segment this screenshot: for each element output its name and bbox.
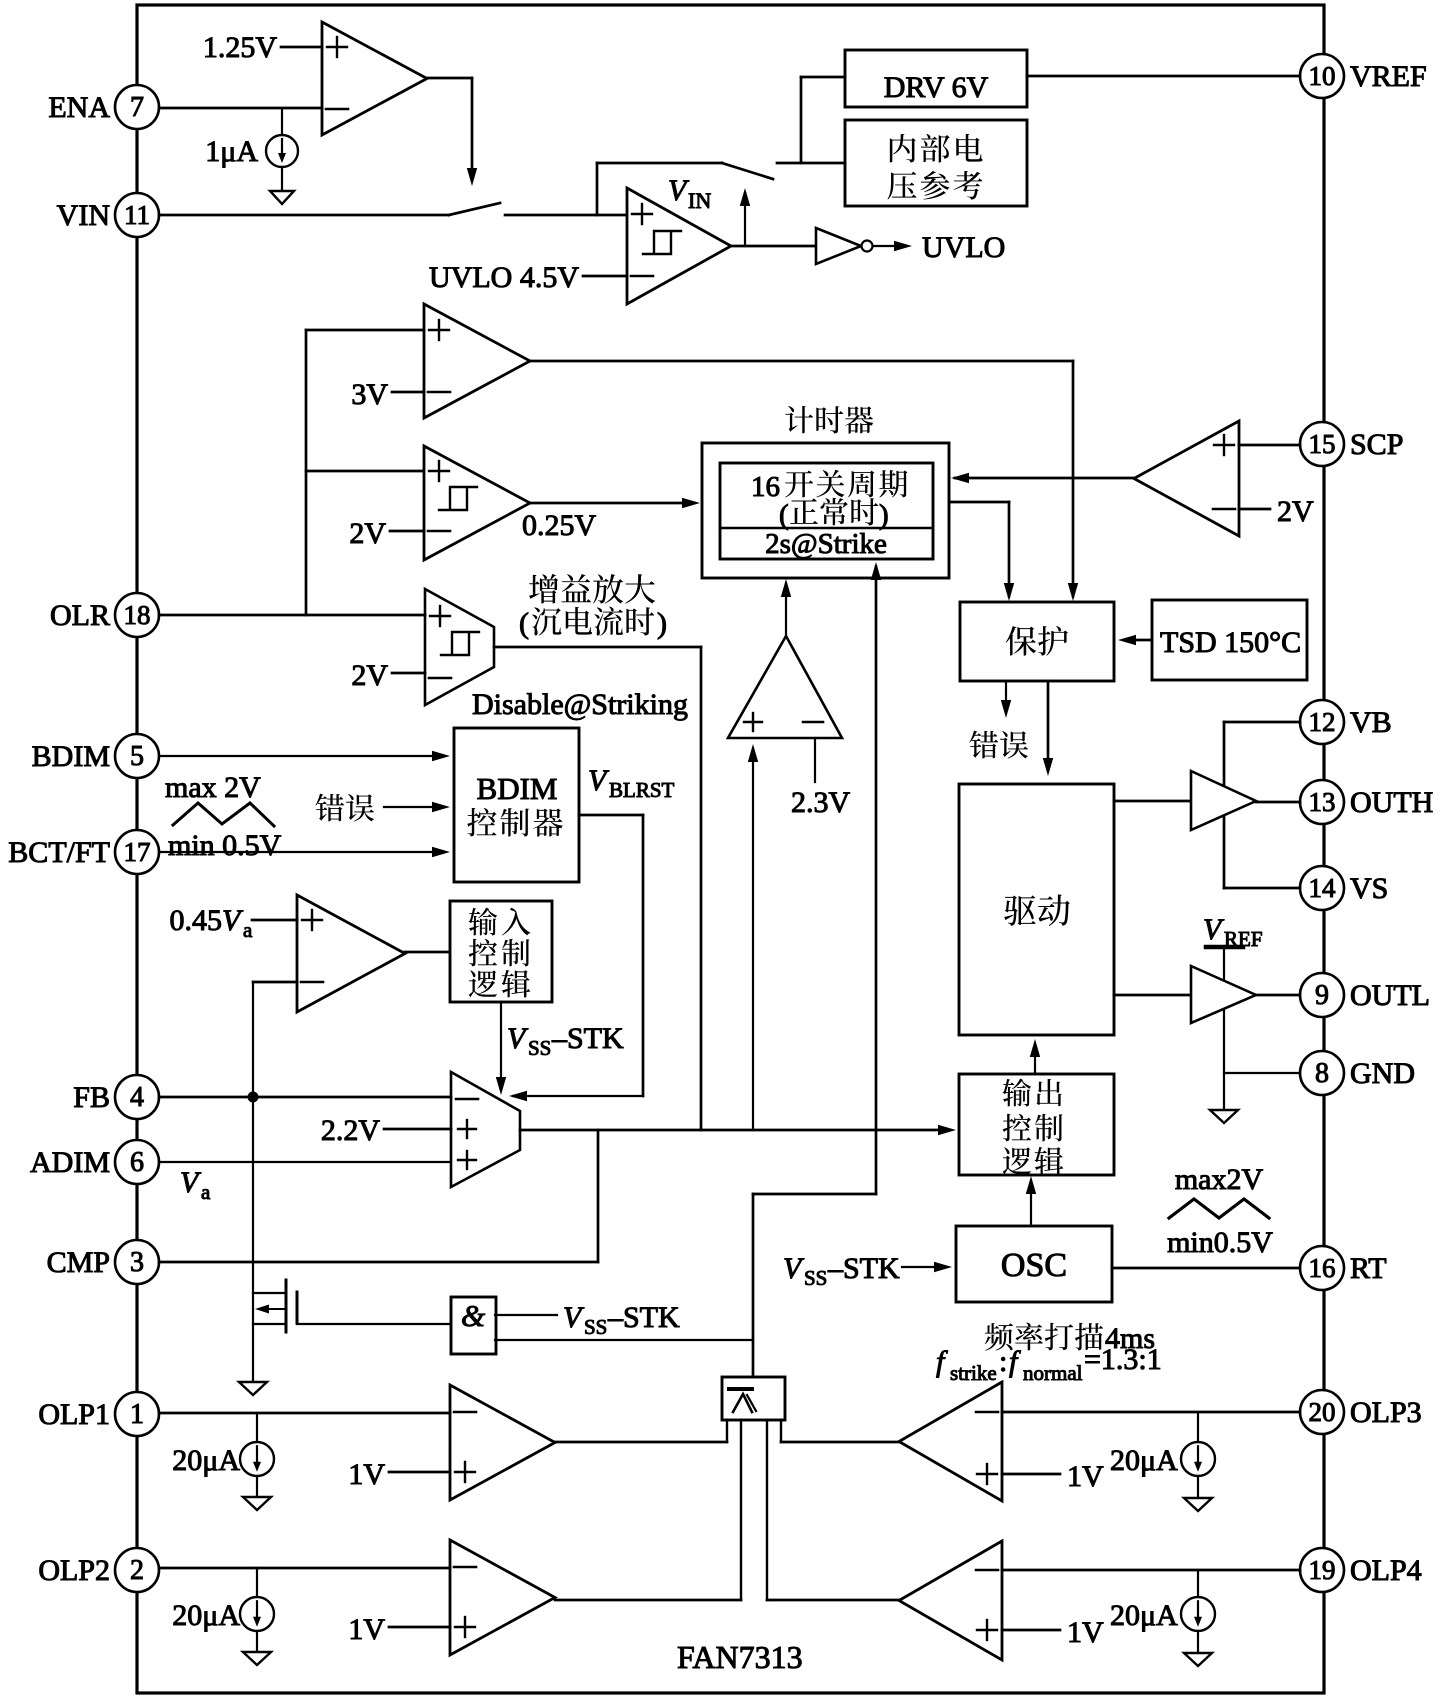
wire OLP3 pin to U14- xyxy=(1002,1411,1300,1414)
svg-text:VS: VS xyxy=(1350,872,1388,905)
svg-text:UVLO 4.5V: UVLO 4.5V xyxy=(429,261,579,294)
label 2V (U7) xyxy=(1277,495,1314,528)
wire Q1 source to ground xyxy=(252,1324,254,1382)
wire U12 input leg from OLP2 xyxy=(740,1420,742,1600)
node FB junction xyxy=(248,1092,259,1103)
switch S2 blade xyxy=(722,163,773,179)
svg-text:SS: SS xyxy=(804,1266,827,1290)
svg-text:VREF: VREF xyxy=(1350,60,1427,93)
svg-text:3: 3 xyxy=(130,1247,144,1278)
wire timer right tap to protection xyxy=(949,502,1014,601)
svg-text:2.2V: 2.2V xyxy=(321,1114,381,1147)
svg-text:strike: strike xyxy=(950,1361,997,1385)
label UVLO 4.5V xyxy=(429,261,579,294)
wire S1 to node/riser xyxy=(505,214,627,217)
wire & to VSS-STK label xyxy=(495,1314,557,1316)
svg-text:OUTH: OUTH xyxy=(1350,786,1433,819)
label VSS-STK (& gate) xyxy=(563,1301,680,1339)
label 1V (OLP3) xyxy=(1067,1460,1104,1493)
transistor Q1 (FB pulldown MOSFET) xyxy=(253,1097,297,1332)
svg-text:7: 7 xyxy=(130,92,144,123)
svg-text:): ) xyxy=(879,499,889,531)
buffer OUTL xyxy=(1114,966,1300,1023)
pin 4 FB xyxy=(73,1075,159,1119)
label VREF (outl) xyxy=(1203,913,1263,951)
comparator U8 2.3V xyxy=(728,636,842,738)
block TSD 150C xyxy=(1152,600,1307,680)
svg-text:): ) xyxy=(657,607,667,640)
svg-text:ADIM: ADIM xyxy=(30,1146,110,1179)
label VSS-STK (OSC) xyxy=(783,1252,900,1290)
svg-text:OSC: OSC xyxy=(1001,1247,1067,1284)
svg-text:CMP: CMP xyxy=(47,1246,110,1279)
svg-text:max 2V: max 2V xyxy=(165,771,261,804)
svg-text:2V: 2V xyxy=(349,517,386,550)
wire FB pin to U10- xyxy=(159,1096,451,1099)
wire 1V to U14+ xyxy=(1002,1473,1060,1476)
label 1uA xyxy=(205,135,258,168)
wire VREF bar down through OUTL buffer to ground xyxy=(1223,947,1225,1110)
svg-text:13: 13 xyxy=(1309,787,1336,817)
label 16 switching periods xyxy=(751,470,907,503)
wire strike-done riser to timer xyxy=(753,562,881,1377)
wire Q1 gate to AND gate xyxy=(297,1323,450,1325)
svg-text:20μA: 20μA xyxy=(172,1599,240,1632)
pin 3 CMP xyxy=(47,1240,159,1284)
svg-text:8: 8 xyxy=(1315,1058,1329,1089)
pin 13 OUTH xyxy=(1300,780,1433,824)
label 20uA (OLP4) xyxy=(1110,1599,1178,1632)
wire 2V to U7- xyxy=(1239,508,1270,511)
label 2V (U5) xyxy=(349,517,386,550)
pin 5 BDIM xyxy=(32,734,159,778)
svg-text:DRV 6V: DRV 6V xyxy=(884,71,989,104)
wire BCT/FT pin to controller xyxy=(159,847,450,857)
wire U6 output Disable@Striking down to CMP node xyxy=(494,647,701,1130)
svg-text:GND: GND xyxy=(1350,1057,1415,1090)
wire GND tap xyxy=(1224,1072,1300,1074)
pin 7 ENA xyxy=(48,85,159,129)
svg-text:&: & xyxy=(461,1298,485,1333)
wire BDIM pin to controller xyxy=(159,751,450,761)
svg-text:normal: normal xyxy=(1023,1361,1083,1385)
svg-text:OLP3: OLP3 xyxy=(1350,1396,1422,1429)
label 1V (OLP2) xyxy=(348,1613,385,1646)
label min 0.5V xyxy=(168,829,282,862)
pin 10 VREF xyxy=(1300,54,1427,98)
svg-text:BDIM: BDIM xyxy=(32,740,110,773)
pin 14 VS xyxy=(1300,866,1388,910)
wire DRV6V to VREF pin xyxy=(1027,75,1300,78)
label 2.3V xyxy=(791,786,851,819)
wire CMP pin riser xyxy=(159,1130,598,1262)
block output control logic xyxy=(959,1074,1114,1175)
svg-text:–STK: –STK xyxy=(607,1301,680,1334)
wire protection to error label xyxy=(1001,681,1011,718)
svg-text:1μA: 1μA xyxy=(205,135,258,168)
block DRV 6V xyxy=(845,50,1027,107)
current source I4 20uA (OLP2) xyxy=(240,1568,274,1651)
wire OLP1 pin to U13- xyxy=(159,1412,450,1415)
wire OSC to output logic xyxy=(1026,1176,1036,1226)
pin 11 VIN xyxy=(57,193,159,237)
inverter U3 xyxy=(816,228,873,264)
comparator U15 OLP2 xyxy=(450,1540,555,1655)
label 2s@Strike xyxy=(765,528,887,560)
svg-text:19: 19 xyxy=(1309,1555,1336,1585)
ground below I1 xyxy=(270,191,294,204)
wire U2 output xyxy=(731,245,816,248)
wire OLP4 pin to U16- xyxy=(1002,1569,1300,1572)
ground below Q1 xyxy=(239,1382,267,1395)
label 1V (OLP4) xyxy=(1067,1616,1104,1649)
svg-text:17: 17 xyxy=(124,837,151,867)
pin 17 BCT/FT xyxy=(8,830,159,874)
svg-text:SS: SS xyxy=(584,1315,607,1339)
svg-text:20: 20 xyxy=(1309,1397,1336,1427)
wire U9 out to input logic xyxy=(405,951,450,954)
svg-text:min0.5V: min0.5V xyxy=(1167,1226,1273,1259)
gate U12 NAND of OLP comparators xyxy=(722,1377,785,1420)
pin 6 ADIM xyxy=(30,1140,159,1184)
svg-text:min 0.5V: min 0.5V xyxy=(168,829,282,862)
block internal voltage reference xyxy=(845,120,1027,206)
svg-text:–STK: –STK xyxy=(551,1022,624,1055)
svg-text:1V: 1V xyxy=(1067,1616,1104,1649)
ground below I3 xyxy=(1184,1498,1212,1511)
block timer inner xyxy=(720,463,933,559)
wire 0.45Va to U9+ xyxy=(252,919,297,922)
switch S1 blade xyxy=(449,203,500,215)
comparator U14 OLP3 xyxy=(899,1382,1002,1501)
svg-text:2.3V: 2.3V xyxy=(791,786,851,819)
block BDIM controller xyxy=(454,728,579,882)
ground below I2 xyxy=(243,1497,271,1510)
label 20uA (OLP2) xyxy=(172,1599,240,1632)
svg-text:16: 16 xyxy=(751,471,780,503)
error amplifier U10 xyxy=(451,1072,520,1187)
wire 2V to U6- xyxy=(392,672,425,675)
svg-text:OLP1: OLP1 xyxy=(38,1398,110,1431)
svg-text:20μA: 20μA xyxy=(1110,1444,1178,1477)
label max 2V xyxy=(165,771,261,804)
wire VBLRST from controller to error amp reset xyxy=(509,815,643,1101)
wire 2.2V to U10+ xyxy=(384,1128,451,1131)
label 20uA (OLP3) xyxy=(1110,1444,1178,1477)
comparator U7 SCP 2V xyxy=(1134,421,1239,536)
label frequency sweep 4ms xyxy=(985,1322,1155,1355)
wire riser to upper rail xyxy=(597,163,722,215)
svg-text:1V: 1V xyxy=(348,1613,385,1646)
wire output logic to driver xyxy=(1030,1039,1040,1074)
triangle wave (RT) xyxy=(1169,1199,1269,1218)
wire 1V to U15+ xyxy=(389,1626,450,1629)
wire U9- to FB node xyxy=(253,982,297,1097)
pin 2 OLP2 xyxy=(38,1548,159,1592)
wire 3V to U4- xyxy=(392,391,424,394)
label gain amplify xyxy=(529,574,655,604)
wire OSC to RT pin xyxy=(1112,1267,1300,1270)
comparator U6 gain amplifier 2V schmitt xyxy=(425,589,494,705)
label error (protection) xyxy=(969,731,1028,759)
label Va (ADIM) xyxy=(180,1166,211,1204)
svg-text:11: 11 xyxy=(124,200,150,230)
svg-text:9: 9 xyxy=(1315,980,1329,1011)
svg-text:14: 14 xyxy=(1309,873,1337,903)
label min0.5V (RT) xyxy=(1167,1226,1273,1259)
label fstrike:fnormal=1.3:1 xyxy=(936,1343,1162,1385)
current source I1 1uA xyxy=(266,108,298,191)
svg-text:2s@Strike: 2s@Strike xyxy=(765,528,887,560)
svg-text:2: 2 xyxy=(130,1555,144,1586)
wire U12 input stub from OLP1 xyxy=(726,1420,728,1442)
label 20uA (OLP1) xyxy=(172,1444,240,1477)
svg-text:15: 15 xyxy=(1309,429,1336,459)
svg-text:SCP: SCP xyxy=(1350,428,1403,461)
svg-text:10: 10 xyxy=(1309,61,1336,91)
comparator U13 OLP1 xyxy=(450,1385,555,1500)
svg-text:FAN7313: FAN7313 xyxy=(677,1639,803,1675)
wire U15 output to NAND xyxy=(555,1599,741,1602)
svg-text:BLRST: BLRST xyxy=(609,778,675,802)
svg-text:20μA: 20μA xyxy=(1110,1599,1178,1632)
pin 9 OUTL xyxy=(1300,973,1430,1017)
current source I5 20uA (OLP4) xyxy=(1181,1570,1215,1652)
wire VIN pin to switch S1 xyxy=(159,214,449,217)
pin 19 OLP4 xyxy=(1300,1548,1422,1592)
gate U11 AND (&) xyxy=(451,1297,496,1354)
wire VSS-STK arrow into OSC xyxy=(902,1262,952,1272)
pin 18 OLR xyxy=(50,593,159,637)
current source I2 20uA xyxy=(240,1413,274,1496)
svg-text:6: 6 xyxy=(130,1147,144,1178)
svg-text:(: ( xyxy=(779,499,789,531)
wire ENA pin to U1- xyxy=(159,107,322,110)
label VBLRST xyxy=(588,764,675,802)
wire 1.25V to U1+ xyxy=(281,46,322,49)
current source I3 20uA (OLP3) xyxy=(1181,1412,1215,1497)
wire VS to pin xyxy=(1224,887,1300,890)
label (sink current) xyxy=(519,607,667,640)
svg-text:FB: FB xyxy=(73,1081,110,1114)
wire U4 output to protection block xyxy=(530,361,1078,601)
buffer OUTH xyxy=(1114,771,1300,830)
wire & second input from strike node xyxy=(495,1339,753,1341)
svg-text:–STK: –STK xyxy=(827,1252,900,1285)
svg-text:BDIM: BDIM xyxy=(477,771,558,806)
comparator U9 0.45Va xyxy=(297,895,405,1012)
ground symbol (GND) xyxy=(1210,1110,1238,1123)
wire error to controller xyxy=(384,802,450,812)
svg-text:ENA: ENA xyxy=(48,91,110,124)
svg-text:12: 12 xyxy=(1309,707,1336,737)
svg-text:1V: 1V xyxy=(348,1458,385,1491)
label 2V (U6) xyxy=(351,659,388,692)
label max2V (RT) xyxy=(1175,1163,1264,1196)
svg-text:(: ( xyxy=(519,607,529,640)
svg-text:2V: 2V xyxy=(351,659,388,692)
svg-text:1V: 1V xyxy=(1067,1460,1104,1493)
wire OLR pin to U6+ xyxy=(159,614,425,617)
wire U13 output to NAND xyxy=(555,1441,727,1444)
pin 12 VB xyxy=(1300,700,1392,744)
svg-text:VIN: VIN xyxy=(57,199,110,232)
label error (BDIM) xyxy=(315,794,374,822)
ground below I4 xyxy=(243,1652,271,1665)
svg-text:3V: 3V xyxy=(351,378,388,411)
svg-text:18: 18 xyxy=(124,600,151,630)
wire input logic VSS-STK down to error amp xyxy=(496,1002,506,1095)
label VSS-STK (input logic) xyxy=(507,1022,624,1060)
ground below I5 xyxy=(1184,1653,1212,1666)
svg-text:4: 4 xyxy=(130,1082,144,1113)
wire U8 output up into timer xyxy=(781,579,791,636)
svg-text:5: 5 xyxy=(130,741,144,772)
block OSC xyxy=(956,1226,1112,1302)
svg-text::: : xyxy=(999,1345,1007,1378)
svg-text:RT: RT xyxy=(1350,1252,1387,1285)
svg-text:OLP2: OLP2 xyxy=(38,1554,110,1587)
pin 8 GND xyxy=(1300,1051,1415,1095)
label 0.25V xyxy=(522,509,597,542)
comparator U2 VIN/UVLO 4.5V (schmitt) xyxy=(627,188,731,304)
svg-text:Disable@Striking: Disable@Striking xyxy=(472,688,688,721)
block input control logic xyxy=(450,901,552,1002)
comparator U1 1.25V/ENA xyxy=(322,22,427,135)
svg-text:16: 16 xyxy=(1309,1253,1336,1283)
svg-text:=1.3:1: =1.3:1 xyxy=(1084,1343,1162,1376)
label 2.2V xyxy=(321,1114,381,1147)
wire CMP node to U8+ xyxy=(748,744,758,1130)
svg-text:OLR: OLR xyxy=(50,599,110,632)
svg-text:1: 1 xyxy=(130,1399,144,1430)
wire U1 output to switch S1 xyxy=(427,78,477,186)
wire 1V to U13+ xyxy=(389,1471,450,1474)
triangle wave (BCT) xyxy=(173,803,274,826)
wire TSD to protection xyxy=(1118,635,1152,645)
wire inverter out to UVLO label xyxy=(873,241,912,251)
svg-text:20μA: 20μA xyxy=(172,1444,240,1477)
svg-text:1.25V: 1.25V xyxy=(203,31,278,64)
wire 2V to U5- xyxy=(390,530,424,533)
pin 20 OLP3 xyxy=(1300,1390,1422,1434)
pin 16 RT xyxy=(1300,1246,1387,1290)
pin 15 SCP xyxy=(1300,422,1403,466)
svg-text:BCT/FT: BCT/FT xyxy=(8,836,110,869)
svg-text:IN: IN xyxy=(688,188,711,213)
label (normal) xyxy=(779,498,889,531)
wire U14 output to NAND xyxy=(781,1441,899,1444)
wire SCP pin to U7+ xyxy=(1239,444,1300,447)
label 0.45Va xyxy=(170,904,254,942)
wire U16 output to NAND xyxy=(767,1599,899,1602)
label 3V xyxy=(351,378,388,411)
svg-text:SS: SS xyxy=(528,1036,551,1060)
svg-text:0.45: 0.45 xyxy=(170,904,223,937)
wire 1V to U16+ xyxy=(1002,1629,1060,1632)
wire U7 output to timer xyxy=(951,473,1134,483)
comparator U16 OLP4 xyxy=(899,1541,1002,1660)
block timer outer xyxy=(702,443,949,578)
label 1V (OLP1) xyxy=(348,1458,385,1491)
svg-text:a: a xyxy=(243,918,253,942)
wire VB to driver riser xyxy=(1224,722,1300,888)
svg-text:OUTL: OUTL xyxy=(1350,979,1430,1012)
wire U10 output (CMP node) to output logic xyxy=(520,1125,956,1135)
pin 1 OLP1 xyxy=(38,1392,159,1436)
label timer title xyxy=(785,406,873,434)
block driver xyxy=(959,784,1114,1035)
svg-text:VB: VB xyxy=(1350,706,1392,739)
wire ADIM pin to U10+ xyxy=(159,1161,451,1163)
comparator U4 3V xyxy=(424,304,530,418)
svg-text:UVLO: UVLO xyxy=(922,231,1005,264)
svg-text:OLP4: OLP4 xyxy=(1350,1554,1422,1587)
wire U5 output to timer xyxy=(530,498,700,508)
wire protection to driver xyxy=(1043,681,1053,776)
wire U12 input leg from OLP4 xyxy=(766,1420,768,1600)
VREF supply bar xyxy=(1206,945,1243,950)
label 1.25V xyxy=(203,31,278,64)
wire UVLO feedback arrow up to S2 xyxy=(740,188,750,246)
svg-text:max2V: max2V xyxy=(1175,1163,1264,1196)
comparator U5 0.25V schmitt xyxy=(424,446,530,560)
svg-text:TSD 150°C: TSD 150°C xyxy=(1160,626,1301,659)
label UVLO xyxy=(922,231,1005,264)
label Disable@Striking xyxy=(472,688,688,721)
wire S2 to internal reference xyxy=(777,77,845,163)
label VIN on U2 xyxy=(668,174,711,213)
block protection xyxy=(960,602,1114,681)
wire OLP2 pin to U15- xyxy=(159,1567,450,1570)
wire U12 input stub from OLP3 xyxy=(780,1420,782,1442)
wire 2.3V to U8- xyxy=(814,738,816,782)
svg-text:0.25V: 0.25V xyxy=(522,509,597,542)
wire UVLO4.5V to U2- xyxy=(583,275,627,278)
svg-text:2V: 2V xyxy=(1277,495,1314,528)
label FAN7313 xyxy=(677,1639,803,1675)
wire OLR riser to U4+ and U5+ xyxy=(306,330,424,615)
svg-text:a: a xyxy=(201,1180,211,1204)
